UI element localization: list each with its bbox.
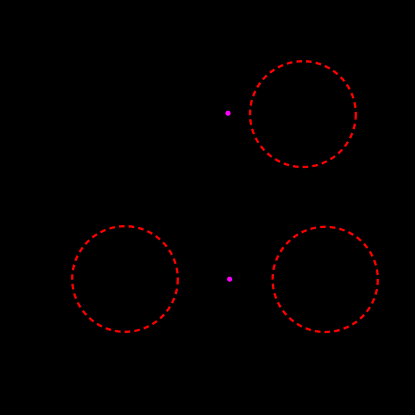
dashed cluster circle bottom-right: [273, 227, 378, 332]
dashed cluster circle bottom-left: [72, 226, 178, 332]
magenta point upper: [225, 111, 230, 116]
magenta point lower: [227, 277, 232, 282]
dashed cluster circle top-right: [250, 61, 356, 167]
